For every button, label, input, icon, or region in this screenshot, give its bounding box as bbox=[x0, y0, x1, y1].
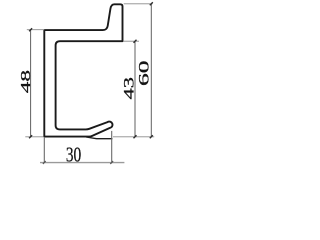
dimension line 60 (far right vertical) bbox=[150, 4, 152, 137]
extension line, dim 60 top bbox=[124, 3, 153, 5]
dimension line 48 (left vertical) bbox=[30, 30, 32, 137]
tick, dim 30 right bbox=[110, 161, 113, 164]
tick, dim 60 bottom bbox=[150, 135, 153, 138]
value label 43 bbox=[121, 77, 137, 99]
extension line, dim 48 top bbox=[27, 29, 45, 31]
tick, dim 48 top bbox=[29, 28, 32, 31]
extension line, dim 30 right bbox=[111, 131, 113, 162]
extension line, dim 30 left bbox=[43, 138, 45, 163]
dimension line 43 (right vertical) bbox=[134, 41, 136, 137]
tick, dim 30 left bbox=[43, 161, 46, 164]
bottom step edge under hook lip bbox=[86, 137, 112, 139]
extension line, dims 43/60 bottom bbox=[113, 136, 154, 138]
tick, dim 43 top bbox=[134, 40, 137, 43]
value label 30 bbox=[66, 144, 81, 167]
profile outline (extrusion cross-section body) bbox=[44, 4, 122, 136]
extension line, dim 48 bottom bbox=[25, 136, 43, 138]
dimension line 30 (bottom horizontal, gray) bbox=[40, 162, 124, 164]
svg-text:48: 48 bbox=[19, 70, 34, 93]
extension line, dim 43 top bbox=[124, 40, 139, 42]
value label 60 bbox=[135, 60, 152, 85]
tick, dim 43 bottom bbox=[134, 135, 137, 138]
svg-text:30: 30 bbox=[66, 144, 81, 167]
tick, dim 60 top bbox=[150, 2, 153, 5]
tick, dim 48 bottom bbox=[29, 135, 32, 138]
value label 48 bbox=[19, 70, 34, 93]
svg-text:60: 60 bbox=[135, 60, 152, 85]
